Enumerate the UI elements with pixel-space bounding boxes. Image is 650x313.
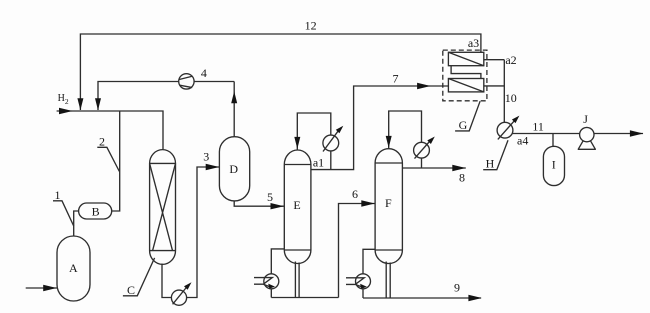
svg-text:1: 1 xyxy=(55,188,61,202)
wire feed into A xyxy=(26,287,57,289)
label 1 with leader xyxy=(53,188,74,226)
wire F reboiler loop xyxy=(363,249,390,298)
svg-text:F: F xyxy=(385,196,392,210)
svg-text:H: H xyxy=(486,157,495,171)
valve loop circle on F overhead xyxy=(414,137,435,159)
wire lower exchanger to line 10 xyxy=(484,85,505,87)
column C (packed reactor) xyxy=(150,150,176,265)
wire 11 (valve a4 to pump J and out) xyxy=(513,133,644,135)
arrow down end of wire 4 xyxy=(95,98,101,110)
reboiler of E (coil heater) xyxy=(254,274,279,289)
vessel A xyxy=(57,236,90,301)
svg-text:a1: a1 xyxy=(313,156,324,170)
arrow 9 xyxy=(468,295,482,301)
svg-text:E: E xyxy=(293,198,300,212)
label G with leader xyxy=(455,101,480,132)
wire line 11 down to vessel I xyxy=(552,134,554,147)
wire a2 (upper exchanger to line 10) xyxy=(484,59,505,61)
wire 6 (E bottoms to column F) xyxy=(339,204,376,298)
pump J xyxy=(578,127,596,149)
svg-text:a3: a3 xyxy=(468,36,479,50)
wire 8 (product out of F) xyxy=(402,167,465,169)
arrow 8 xyxy=(452,165,466,171)
wire D top to line 4 xyxy=(233,82,235,137)
wire E reboiler loop xyxy=(271,249,338,298)
wire H2 feed header into column C top xyxy=(57,111,163,149)
svg-text:12: 12 xyxy=(305,19,317,33)
svg-text:B: B xyxy=(92,205,100,219)
label H with leader xyxy=(483,140,508,170)
wire 2 (B up to feed header) xyxy=(112,111,120,211)
valve under C (circle with slanted arrow) xyxy=(171,282,191,305)
svg-text:C: C xyxy=(127,283,135,297)
svg-text:I: I xyxy=(552,158,556,172)
wire F reflux (down into F top) xyxy=(389,111,422,168)
svg-text:a4: a4 xyxy=(517,134,528,148)
svg-text:8: 8 xyxy=(459,170,465,184)
wire C bottom outlet to valve xyxy=(162,264,171,298)
wire 7 (E side draw up to exchangers G) xyxy=(311,86,449,170)
arrow into F top xyxy=(386,136,392,148)
arrow into E top xyxy=(294,137,300,149)
arrow 7 xyxy=(417,83,431,89)
exchanger a3 (upper block) xyxy=(448,52,483,65)
svg-text:6: 6 xyxy=(352,187,358,201)
svg-text:4: 4 xyxy=(201,66,207,80)
valve a1 loop circle on E overhead xyxy=(323,126,343,152)
valve a4 (circle with slanted arrow) xyxy=(497,116,519,140)
arrow 6 into F xyxy=(361,200,375,206)
arrow up on D overhead xyxy=(231,91,237,103)
wire connector between exchanger blocks xyxy=(451,66,481,79)
svg-text:D: D xyxy=(229,162,238,176)
wire 3 (valve up to vessel D) xyxy=(187,167,220,298)
wire 9 (F bottoms out) xyxy=(363,297,481,299)
reboiler of F (coil heater) xyxy=(346,274,371,289)
svg-text:2: 2 xyxy=(99,135,105,149)
wire E reflux (down into E top) xyxy=(297,113,331,170)
vessel D xyxy=(219,137,249,201)
exchanger lower block xyxy=(448,79,483,92)
wire 5 (D bottom to column E) xyxy=(234,201,284,206)
wire 4 (compressor line to feed header) xyxy=(98,82,234,111)
vessel I xyxy=(543,146,564,185)
svg-text:3: 3 xyxy=(203,150,209,164)
column F xyxy=(375,149,402,264)
svg-text:10: 10 xyxy=(505,91,517,105)
svg-text:G: G xyxy=(459,118,468,132)
svg-text:9: 9 xyxy=(454,281,460,295)
svg-text:A: A xyxy=(69,261,78,275)
wire 10 (down to valve a4) xyxy=(503,60,505,123)
column E xyxy=(284,150,311,264)
svg-text:11: 11 xyxy=(532,119,544,133)
wire A to B xyxy=(74,211,79,236)
arrow 5 into E xyxy=(271,203,285,209)
arrow product out right xyxy=(630,130,644,136)
svg-text:5: 5 xyxy=(267,190,273,204)
label C with leader xyxy=(123,258,155,297)
svg-text:a2: a2 xyxy=(505,53,516,67)
arrow H2 feed xyxy=(59,108,73,114)
wire 12 (recycle line top) xyxy=(80,34,481,110)
svg-text:7: 7 xyxy=(393,71,399,85)
dashed box of exchanger group G xyxy=(443,50,487,101)
arrow 3 into D xyxy=(206,164,220,170)
arrow feed into A xyxy=(43,285,57,291)
compressor 4 xyxy=(179,74,194,89)
arrow down end of wire 12 xyxy=(77,98,83,110)
svg-text:J: J xyxy=(583,112,588,126)
vessel B xyxy=(79,203,112,219)
label 2 with leader xyxy=(97,135,119,172)
